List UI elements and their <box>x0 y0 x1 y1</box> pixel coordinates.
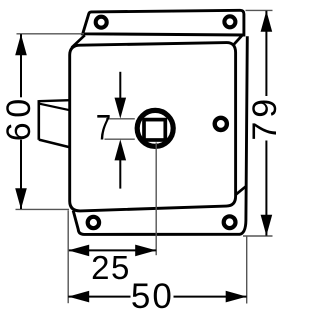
lock case front face <box>70 43 236 211</box>
top mounting flange <box>83 10 244 35</box>
dim 79 top extension line <box>246 9 273 11</box>
chamfer edge bottom-right <box>236 187 246 195</box>
latch bolt top edge <box>39 100 70 101</box>
dim 60 bottom extension line <box>16 208 70 210</box>
dim 60 arrow down <box>15 188 27 209</box>
dim 79 arrow down <box>261 215 273 236</box>
top flange screw hole left <box>96 17 107 28</box>
dim 25 line <box>68 249 156 251</box>
dim 7 top extension line <box>106 118 135 120</box>
dim 7 arrow down <box>115 98 127 119</box>
dim 50 line left segment <box>68 296 130 298</box>
dim 79 arrow up <box>261 11 273 32</box>
rear plate right edge and bottom flange <box>73 36 247 234</box>
dim 60 line upper segment <box>20 34 22 97</box>
top flange screw hole right <box>224 16 235 27</box>
dim 50 left extension line <box>67 210 69 303</box>
chamfer edge top-right <box>233 35 242 45</box>
svg-text:79: 79 <box>246 95 284 141</box>
dim 25 arrow left <box>68 245 89 257</box>
spindle hole circle <box>137 110 173 146</box>
latch bolt bevel line <box>39 104 70 111</box>
latch bolt bottom edge <box>39 140 70 148</box>
dim 50 line right segment <box>174 296 247 298</box>
center line through spindle <box>155 143 157 256</box>
dim 60 arrow up <box>15 34 27 55</box>
dim 79 line lower segment <box>265 141 267 236</box>
small hole on right of case <box>215 118 227 130</box>
dim 50 right extension line <box>246 236 248 303</box>
spindle square hole <box>144 120 165 140</box>
latch bolt left edge <box>37 100 40 140</box>
dim 60 line lower segment <box>20 140 22 209</box>
dim 60 top extension line <box>17 33 85 35</box>
svg-text:7: 7 <box>96 108 111 147</box>
dim 50 arrow right <box>226 291 247 303</box>
dim 7 upper arrow line <box>119 72 121 102</box>
dim 50 arrow left <box>68 291 89 303</box>
bottom flange screw hole left <box>88 217 99 228</box>
svg-text:50: 50 <box>131 277 174 316</box>
dim 79 line upper segment <box>265 11 267 96</box>
dim 7 lower arrow line <box>119 156 121 189</box>
chamfer edge top-left <box>72 35 85 47</box>
dim 7 bottom extension line <box>105 138 135 140</box>
dim 25 arrow right <box>135 245 156 257</box>
svg-text:25: 25 <box>91 249 131 286</box>
svg-text:60: 60 <box>0 94 38 141</box>
dim 7 arrow up <box>115 139 127 160</box>
bottom flange screw hole right <box>224 216 236 228</box>
dim 79 bottom extension line <box>243 235 273 237</box>
